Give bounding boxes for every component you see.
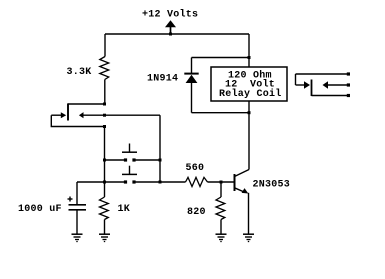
wire right drop rail to relay/diode node (248, 34, 250, 170)
junction dot touch2 right (159, 181, 162, 184)
junction dot source line (103, 114, 106, 117)
svg-text:560: 560 (186, 163, 205, 174)
transistor Q2 emitter arrowhead (242, 188, 249, 193)
contact arm arrow shaft (296, 84, 305, 86)
touch plate TP2 stem (129, 166, 131, 175)
svg-text:820: 820 (187, 207, 206, 218)
svg-text:2N3053: 2N3053 (253, 180, 291, 191)
wire 560 to base node (208, 181, 234, 183)
resistor R4 820 top lead (220, 182, 222, 197)
resistor R4 820 zigzag (216, 197, 225, 220)
transistor Q2 emitter diagonal (235, 188, 244, 192)
power +12V arrow (165, 20, 176, 34)
svg-text:1N914: 1N914 (147, 74, 178, 85)
wire FET source down to touch wires (159, 115, 161, 182)
resistor R2 1K bottom lead (104, 220, 106, 235)
wire touch row 1 left (105, 159, 125, 161)
touch contact point row2 right (132, 180, 135, 183)
wire diode top branch (192, 57, 250, 59)
ground under capacitor (72, 234, 83, 241)
diode D1 1N914 leads (191, 58, 193, 74)
wire gate wrap-around (51, 115, 104, 126)
transistor Q2 base bar (234, 174, 236, 191)
contact terminal square middle (347, 83, 350, 86)
wire left drop from rail to 3.3K (104, 34, 106, 57)
contact common arrow shaft (328, 84, 347, 86)
junction dot touch1 right (159, 159, 162, 162)
transistor Q1 FET channel bar (67, 103, 69, 120)
transistor Q1 FET drain lead (68, 103, 105, 105)
contact terminal square top (347, 72, 350, 75)
junction dot touch2 left (103, 181, 106, 184)
wire contact left vertical (295, 74, 297, 85)
wire top +12V rail (105, 33, 249, 35)
resistor R3 560 zigzag (186, 177, 208, 186)
ground under 1K (99, 234, 110, 241)
svg-text:+12 Volts: +12 Volts (142, 9, 198, 21)
svg-text:1000 uF: 1000 uF (18, 204, 62, 215)
touch plate TP1 bar (122, 151, 137, 153)
contact common arrowhead left (323, 81, 329, 88)
capacitor C1 plates (69, 204, 87, 206)
wire contact bottom (312, 95, 348, 97)
wire touch row 2 left (from cap) (77, 181, 125, 183)
wire 3.3K bottom lead (104, 80, 106, 105)
diode D1 1N914 triangle (186, 75, 198, 83)
touch plate TP2 bar (122, 173, 137, 175)
capacitor C1 bottom lead (76, 211, 78, 235)
svg-text:3.3K: 3.3K (67, 67, 92, 78)
transistor Q1 FET gate arrow shaft (51, 114, 61, 116)
resistor R1 3.3K zigzag (100, 57, 109, 80)
junction dot diode bottom (248, 111, 251, 114)
junction dot 3.3K / drain (103, 103, 106, 106)
junction dot touch1 left (103, 159, 106, 162)
touch contact point row1 right (132, 158, 135, 161)
junction dot 820 top (220, 181, 223, 184)
junction dot gate line (103, 125, 106, 128)
svg-text:Relay Coil: Relay Coil (219, 88, 282, 100)
contact terminal square bottom (347, 94, 350, 97)
transistor Q2 2N3053 (235, 170, 250, 235)
junction dot diode top (248, 56, 251, 59)
wire contact top (296, 73, 348, 75)
wire touch row 1 right (136, 159, 161, 161)
wire diode bottom branch (192, 112, 250, 114)
ground under emitter (243, 234, 254, 241)
touch plate TP1 stem (129, 144, 131, 153)
svg-text:1K: 1K (118, 204, 131, 215)
contact bar (311, 80, 313, 97)
relay contacts (296, 74, 348, 96)
junction dot +12 stem (169, 33, 172, 36)
resistor R4 820 bottom lead (220, 220, 222, 235)
ground under 820 (216, 234, 227, 241)
transistor Q1 FET source arrowhead (79, 112, 84, 118)
diode D1 1N914 cathode bar (184, 73, 198, 75)
resistor R2 1K zigzag (100, 197, 109, 220)
wire touch row 2 right (136, 181, 161, 183)
touch contact point row2 left (124, 180, 127, 183)
transistor Q2 emitter vertical (248, 193, 250, 234)
wire left net vertical (104, 127, 106, 198)
relay coil box (211, 67, 287, 101)
transistor Q1 FET gate arrowhead (61, 112, 66, 118)
touch contact point row1 left (124, 158, 127, 161)
wire main row to 560 (160, 181, 186, 183)
transistor Q1 FET source shaft (84, 114, 161, 116)
contact arm arrowhead right (304, 81, 310, 88)
capacitor C1 plus sign (68, 198, 73, 200)
capacitor C1 top lead (76, 182, 78, 204)
transistor Q2 collector diagonal (235, 170, 250, 177)
